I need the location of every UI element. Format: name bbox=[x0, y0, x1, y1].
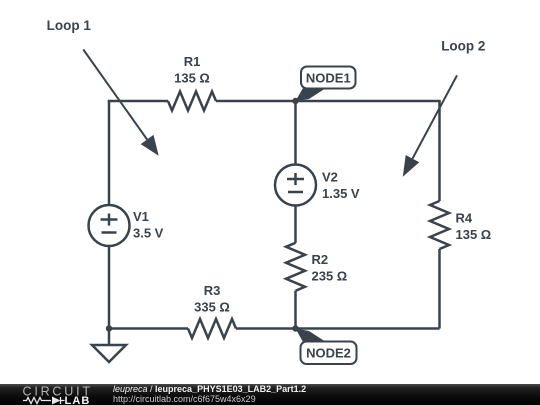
label R3 value 335 ohm bbox=[194, 299, 230, 314]
resistor R4 bbox=[430, 201, 449, 249]
wire top-right segment bbox=[216, 101, 440, 102]
label V1 value 3.5 V bbox=[133, 226, 164, 241]
annotation Loop 1 arrow bbox=[83, 50, 158, 156]
annotation Loop 2 text bbox=[441, 39, 485, 54]
voltage source V1 bbox=[89, 205, 130, 246]
svg-text:3.5 V: 3.5 V bbox=[133, 226, 164, 241]
svg-text:LAB: LAB bbox=[65, 395, 91, 405]
wire bottom-right segment bbox=[236, 327, 440, 330]
svg-text:NODE1: NODE1 bbox=[306, 71, 351, 86]
wire top-left segment bbox=[109, 101, 168, 102]
svg-text:135 Ω: 135 Ω bbox=[456, 227, 492, 242]
svg-text:R4: R4 bbox=[456, 211, 473, 226]
resistor R2 bbox=[286, 243, 305, 291]
label R1 value 135 ohm bbox=[174, 71, 210, 86]
voltage source V2 bbox=[275, 165, 316, 206]
CircuitLab logo bbox=[15, 384, 115, 405]
resistor R1 bbox=[168, 92, 216, 111]
label V1 designator bbox=[133, 209, 149, 224]
svg-text:V2: V2 bbox=[322, 170, 338, 185]
node junction dot NODE1 bbox=[292, 98, 298, 104]
svg-text:R2: R2 bbox=[312, 252, 329, 267]
label R2 value 235 ohm bbox=[312, 268, 348, 283]
svg-text:Loop 2: Loop 2 bbox=[441, 39, 485, 54]
ground bbox=[92, 329, 126, 363]
wire right upper bbox=[438, 101, 441, 201]
wire middle upper bbox=[294, 101, 297, 165]
annotation Loop 2 arrow bbox=[403, 75, 457, 176]
wire right lower bbox=[438, 249, 441, 329]
svg-text:V1: V1 bbox=[133, 209, 149, 224]
svg-text:R1: R1 bbox=[184, 54, 201, 69]
label R2 designator bbox=[312, 252, 329, 267]
node flag NODE2 bbox=[296, 329, 357, 365]
footer text line 1 bbox=[113, 384, 306, 394]
node junction dot NODE2 bbox=[292, 325, 298, 331]
footer text line 2 bbox=[113, 394, 256, 404]
footer bar bbox=[0, 384, 540, 405]
label R4 designator bbox=[456, 211, 473, 226]
label R1 designator bbox=[184, 54, 201, 69]
svg-text:NODE2: NODE2 bbox=[306, 346, 351, 361]
wire left upper bbox=[108, 101, 111, 205]
label R3 designator bbox=[204, 283, 221, 298]
svg-text:Loop 1: Loop 1 bbox=[47, 18, 92, 33]
node junction dot ground bbox=[106, 325, 112, 331]
svg-text:135 Ω: 135 Ω bbox=[174, 71, 210, 86]
resistor R3 bbox=[188, 319, 236, 338]
wire bottom-left segment bbox=[109, 327, 188, 330]
wire left lower bbox=[108, 246, 111, 329]
annotation Loop 1 text bbox=[47, 18, 92, 33]
svg-text:235 Ω: 235 Ω bbox=[312, 268, 348, 283]
label V2 designator bbox=[322, 170, 338, 185]
svg-text:R3: R3 bbox=[204, 283, 221, 298]
label V2 value 1.35 V bbox=[322, 186, 360, 201]
svg-text:335 Ω: 335 Ω bbox=[194, 299, 230, 314]
wire middle between V2 and R2 bbox=[294, 206, 297, 243]
svg-text:1.35 V: 1.35 V bbox=[322, 186, 360, 201]
wire middle lower bbox=[294, 291, 297, 329]
label R4 value 135 ohm bbox=[456, 227, 492, 242]
node flag NODE1 bbox=[296, 67, 356, 102]
